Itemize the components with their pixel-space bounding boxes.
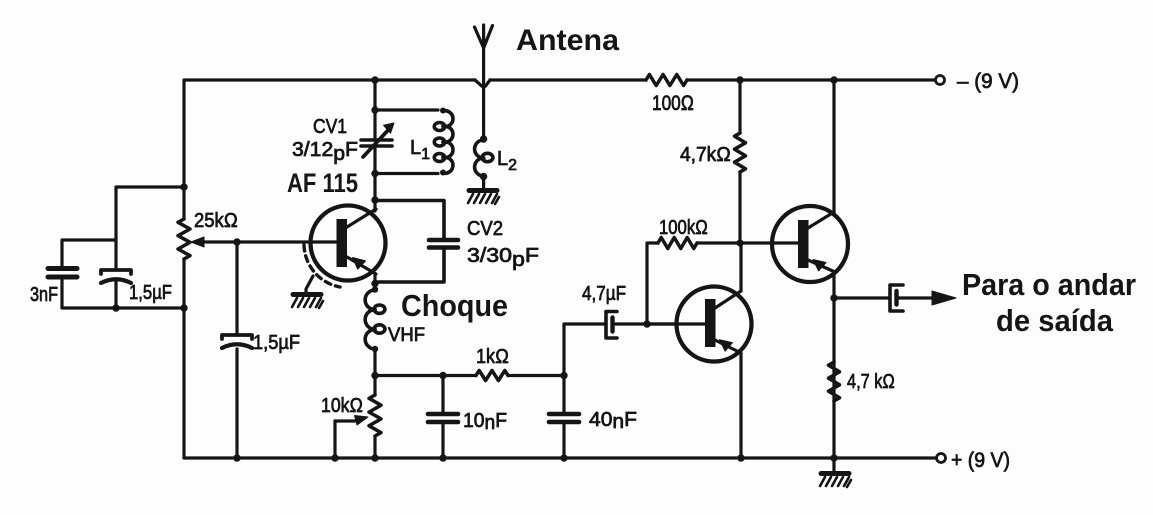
node collector CV2 branch [371, 196, 378, 203]
svg-text:3/12pF: 3/12pF [292, 139, 358, 165]
svg-text:L2: L2 [497, 148, 517, 174]
node cap branch bottom [112, 304, 119, 311]
svg-text:4,7µF: 4,7µF [582, 283, 626, 305]
node choke bottom [371, 372, 378, 379]
capacitor 10nF [428, 376, 507, 459]
capacitor 40nF [549, 376, 637, 459]
capacitor 1,5uF left [101, 270, 172, 304]
svg-text:10kΩ: 10kΩ [321, 395, 363, 417]
wire collector bus vertical [373, 80, 376, 211]
wire L1 bottom branch [375, 172, 438, 175]
transistor AF115 [287, 168, 386, 281]
wire Q3 collector up [832, 80, 835, 212]
node Q2 collector junction [736, 239, 743, 246]
capacitor 4,7uF coupling [564, 283, 679, 376]
node pot bottom rail [371, 454, 378, 461]
svg-text:3/30pF: 3/30pF [467, 245, 539, 271]
resistor 4,7k ohm upper [680, 80, 746, 243]
terminal +(9V) [937, 454, 946, 463]
wire Q3 emitter down [832, 272, 835, 458]
capacitor 3nF [30, 269, 77, 307]
node 100k junction [643, 320, 650, 327]
svg-text:– (9 V): – (9 V) [957, 70, 1019, 93]
node bottom rail 1,5uF [233, 454, 240, 461]
node left bus lower [180, 304, 187, 311]
ground bottom rail [820, 458, 851, 487]
wire left cap branch top [62, 187, 184, 268]
node 10nF bottom rail [439, 454, 446, 461]
svg-text:CV2: CV2 [467, 218, 503, 240]
node top rail Q3 [830, 76, 837, 83]
node bottom rail Q3 [830, 454, 837, 461]
svg-text:4,7 kΩ: 4,7 kΩ [847, 371, 895, 393]
node 40nF top [560, 372, 567, 379]
svg-text:4,7kΩ: 4,7kΩ [680, 144, 731, 166]
inductor L2 [475, 135, 518, 180]
shield lead AF115 dashed [304, 245, 340, 293]
svg-text:de saída: de saída [996, 303, 1114, 338]
svg-text:AF 115: AF 115 [287, 168, 358, 198]
wire top rail (-9V bus) [185, 80, 935, 87]
node L1 bottom [371, 170, 378, 177]
wire emitter stub [373, 274, 376, 289]
terminal -(9V) [936, 76, 945, 85]
node emitter junction [371, 280, 378, 287]
wire L2 to ground [482, 177, 485, 190]
node top rail 4,7k [736, 76, 743, 83]
svg-text:100kΩ: 100kΩ [659, 217, 708, 239]
svg-text:CV1: CV1 [313, 116, 347, 138]
resistor 100k ohm [647, 217, 740, 324]
node L1 top [371, 106, 378, 113]
node Q2 emitter rail [737, 454, 744, 461]
svg-text:40nF: 40nF [589, 409, 637, 433]
wire Q2 emitter down [739, 353, 742, 458]
wire choke to bottom node [373, 349, 376, 376]
capacitor CV2 3/30pF [375, 201, 539, 283]
transistor Q3 [772, 206, 848, 282]
wire base node to AF115 [237, 240, 337, 243]
svg-text:Antena: Antena [516, 24, 619, 57]
resistor 100 ohm [646, 75, 687, 86]
wire Q3 base [740, 241, 798, 244]
resistor 1k ohm [476, 346, 509, 381]
transistor Q2 [647, 287, 752, 362]
wire left cap branch bottom [62, 277, 184, 308]
capacitor CV1 3/12pF variable [292, 116, 394, 165]
node output junction [830, 294, 837, 301]
svg-text:25kΩ: 25kΩ [194, 210, 238, 232]
svg-text:3nF: 3nF [30, 284, 58, 306]
capacitor output coupling [834, 285, 956, 311]
node left bus upper [180, 183, 187, 190]
node base wiper junction [233, 238, 240, 245]
wire emitter row [375, 374, 564, 377]
inductor L1 [410, 108, 453, 176]
capacitor 1,5uF emitter bypass [222, 242, 300, 458]
node 10nF top [439, 372, 446, 379]
svg-text:Choque: Choque [401, 288, 508, 323]
node 10k wiper rail [331, 454, 338, 461]
svg-text:10nF: 10nF [463, 410, 507, 434]
svg-text:+ (9 V): + (9 V) [951, 449, 1010, 472]
svg-text:1kΩ: 1kΩ [476, 346, 509, 368]
svg-text:Para o andar: Para o andar [962, 267, 1136, 302]
antenna [475, 24, 620, 139]
wire L1 top branch [375, 108, 438, 111]
ground AF115 shield [292, 295, 323, 309]
wire Q2 collector up [739, 243, 742, 291]
svg-text:1,5µF: 1,5µF [253, 332, 300, 354]
potentiometer 10k ohm [321, 376, 381, 459]
svg-text:VHF: VHF [388, 325, 425, 346]
node 40nF bottom rail [560, 454, 567, 461]
resistor 4,7k ohm output [829, 362, 896, 401]
wire bottom rail (+9V bus) [184, 456, 935, 459]
wire left bus vertical [182, 80, 185, 458]
label output text [962, 267, 1136, 338]
svg-text:L1: L1 [410, 137, 430, 163]
inductor choke VHF [365, 286, 508, 352]
ground L2 [468, 191, 499, 205]
svg-text:100Ω: 100Ω [652, 92, 694, 115]
svg-text:1,5µF: 1,5µF [129, 282, 172, 304]
potentiometer 25k ohm [178, 210, 238, 259]
node top rail collector bus [371, 76, 378, 83]
